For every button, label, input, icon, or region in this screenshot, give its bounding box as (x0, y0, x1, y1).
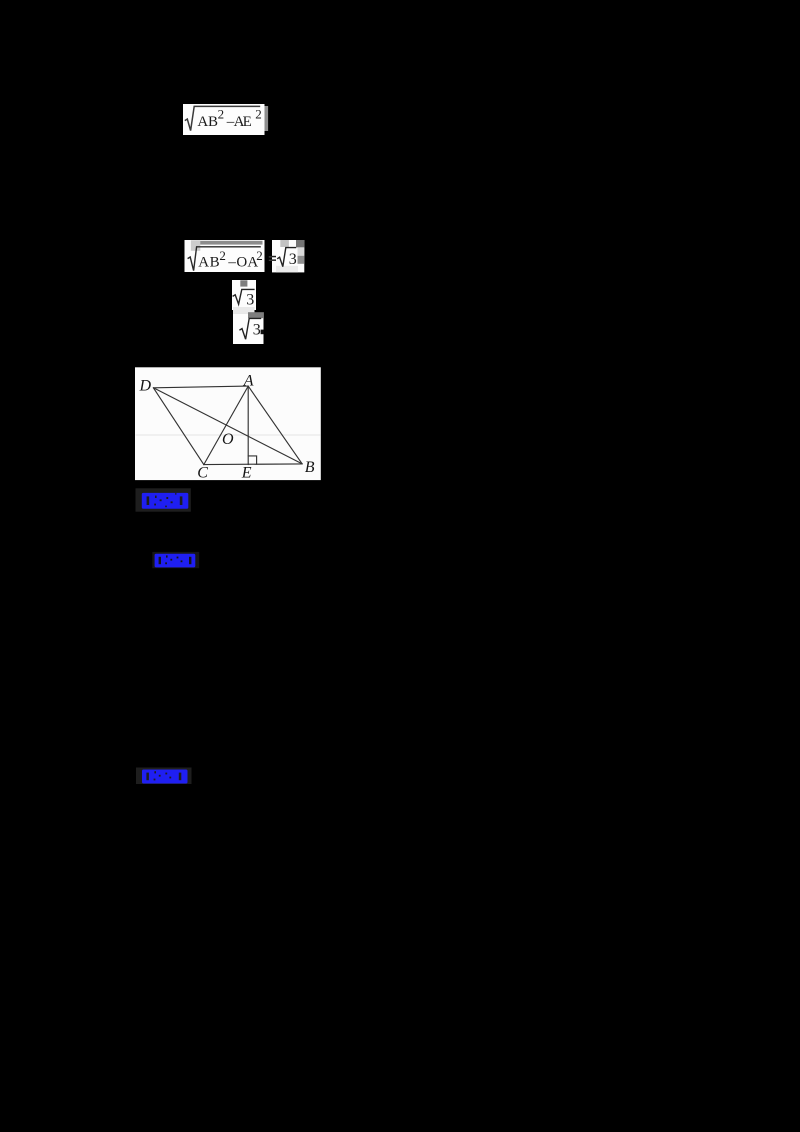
svg-text:O: O (236, 254, 247, 270)
svg-text:–: – (227, 254, 236, 270)
altitude AE (247, 386, 249, 465)
svg-text:A: A (197, 114, 208, 130)
blue glyph blob 1 (142, 493, 189, 509)
gray artifact bar top-right (248, 312, 264, 318)
side DC (153, 388, 203, 465)
blue glyph blob 2 (155, 554, 196, 568)
svg-text:D: D (139, 377, 152, 394)
radical sign of formula 2 (188, 247, 261, 271)
svg-text:3: 3 (246, 291, 254, 308)
svg-text:3: 3 (253, 321, 261, 338)
svg-text:C: C (197, 465, 208, 482)
formula image 3: = sqrt(3) white box (272, 240, 305, 272)
svg-text:B: B (305, 459, 315, 476)
svg-text:B: B (208, 114, 218, 130)
svg-text:2: 2 (219, 248, 226, 263)
light gray corner artifact (191, 240, 201, 251)
blue header 3 with dark box (136, 768, 192, 785)
formula 1 text AB^2-AE^2 (197, 106, 261, 129)
radical sign of formula 1 (185, 106, 260, 130)
radical sign of formula 3 (277, 248, 296, 267)
blue glyph blob 3 (142, 770, 188, 784)
formula image 4: sqrt(3) first small box (232, 280, 256, 313)
jpeg artifact blocks (280, 240, 289, 247)
svg-text:2: 2 (218, 106, 225, 121)
formula 2 text AB^2-OA^2 (198, 248, 263, 271)
faint equals between formula 2 boxes (269, 256, 274, 261)
svg-text:O: O (222, 431, 234, 448)
blue header 1 with dark box (136, 488, 191, 511)
svg-text:2: 2 (255, 106, 262, 121)
diagram white background (135, 367, 321, 480)
svg-text:B: B (210, 254, 220, 270)
faint horizontal scan line (136, 434, 321, 436)
radical sign of formula 5 (239, 318, 261, 339)
gray artifact strip right of formula 1 box (265, 106, 269, 131)
svg-text:E: E (241, 465, 252, 482)
equals inside sqrt3 box (272, 256, 276, 257)
gray vinculum band artifact (200, 241, 263, 245)
svg-text:E: E (243, 114, 252, 130)
blue header 2 with dark box (152, 552, 199, 568)
diagonal AC (204, 386, 248, 465)
svg-text:A: A (243, 373, 254, 390)
formula image 2: sqrt(AB^2-OA^2) white box (185, 240, 265, 272)
geometry diagram image (135, 367, 321, 481)
diagonal DB (153, 388, 302, 464)
side DA (153, 386, 248, 388)
side AB (248, 386, 302, 464)
formula image 1: sqrt(AB^2-AE^2) white box (183, 104, 268, 135)
svg-text:A: A (198, 254, 209, 270)
gray artifact top-right (240, 280, 247, 286)
svg-text:3: 3 (289, 251, 297, 268)
dark notch right of 3 (261, 330, 264, 335)
radical sign of formula 4 (233, 289, 255, 304)
formula image 5: sqrt(3) second small box (233, 312, 264, 344)
right angle mark at E (248, 456, 256, 464)
vertex labels (139, 373, 315, 482)
svg-text:2: 2 (256, 248, 263, 263)
base CB (204, 463, 302, 466)
